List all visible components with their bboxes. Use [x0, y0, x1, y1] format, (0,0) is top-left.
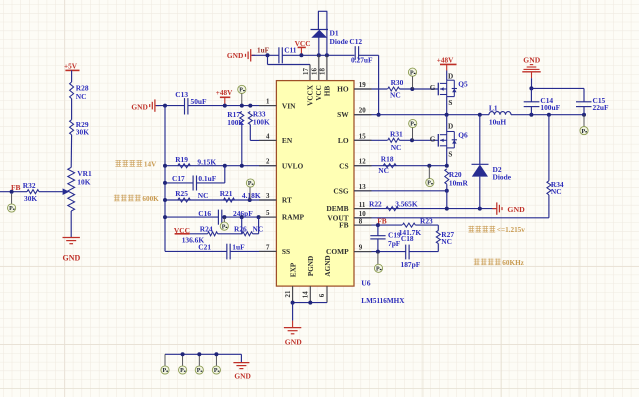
svg-text:NC: NC	[76, 92, 87, 101]
svg-text:C13: C13	[175, 90, 188, 99]
svg-text:3.565K: 3.565K	[395, 199, 418, 208]
svg-text:UVLO: UVLO	[282, 161, 304, 170]
svg-text:C16: C16	[198, 209, 211, 218]
svg-text:10mR: 10mR	[449, 178, 469, 187]
svg-text:6: 6	[319, 293, 326, 297]
svg-text:R18: R18	[381, 155, 394, 164]
svg-text:600K: 600K	[142, 195, 159, 203]
svg-text:R25: R25	[175, 189, 188, 198]
svg-text:50uF: 50uF	[191, 97, 208, 106]
svg-text:GND: GND	[227, 51, 243, 60]
svg-text:C21: C21	[198, 242, 211, 251]
svg-text:S: S	[448, 150, 452, 158]
svg-text:FB: FB	[11, 183, 21, 192]
svg-text:C12: C12	[349, 37, 362, 46]
svg-text:D: D	[448, 72, 453, 80]
svg-text:P: P	[197, 368, 201, 374]
svg-text:9: 9	[359, 245, 363, 252]
svg-text:10: 10	[359, 211, 366, 218]
svg-text:R21: R21	[220, 189, 233, 198]
svg-text:17: 17	[303, 68, 310, 75]
svg-text:P: P	[248, 181, 252, 187]
svg-text:RT: RT	[282, 196, 292, 205]
svg-text:U6: U6	[361, 278, 370, 287]
svg-text:NC: NC	[390, 91, 401, 100]
svg-text:P: P	[162, 368, 166, 374]
svg-text:1: 1	[266, 99, 270, 106]
svg-text:PGND: PGND	[307, 256, 315, 276]
svg-text:P: P	[239, 88, 243, 94]
svg-text:13: 13	[359, 184, 366, 191]
svg-text:GND: GND	[285, 337, 302, 346]
svg-text:4: 4	[266, 133, 270, 140]
svg-text:EN: EN	[282, 136, 293, 145]
svg-text:NC: NC	[198, 191, 209, 200]
svg-text:S: S	[448, 99, 452, 107]
svg-text:21: 21	[285, 290, 292, 297]
svg-text:EXP: EXP	[290, 262, 298, 277]
svg-text:0.27uF: 0.27uF	[351, 56, 373, 65]
svg-text:11: 11	[359, 202, 366, 209]
svg-text:P: P	[410, 70, 414, 76]
svg-text:R22: R22	[369, 199, 382, 208]
svg-text:Q6: Q6	[458, 131, 468, 140]
svg-text:FB: FB	[339, 221, 349, 230]
svg-text:<=1.215v: <=1.215v	[497, 226, 525, 234]
svg-text:P: P	[410, 122, 414, 128]
svg-text:R23: R23	[420, 216, 433, 225]
svg-text:20: 20	[359, 108, 366, 115]
svg-text:CSG: CSG	[333, 186, 348, 195]
svg-text:C18: C18	[401, 234, 414, 243]
svg-text:30K: 30K	[76, 128, 89, 137]
svg-text:D: D	[448, 123, 453, 131]
svg-text:4.18K: 4.18K	[242, 191, 261, 200]
svg-text:18: 18	[320, 68, 327, 75]
svg-text:R26: R26	[234, 225, 247, 234]
svg-text:GND: GND	[507, 205, 525, 214]
svg-text:VIN: VIN	[282, 101, 296, 110]
svg-text:SW: SW	[337, 110, 349, 119]
svg-text:GND: GND	[63, 254, 81, 263]
svg-text:9.15K: 9.15K	[197, 157, 216, 166]
svg-text:LM5116MHX: LM5116MHX	[361, 297, 405, 305]
svg-text:3: 3	[266, 193, 270, 200]
svg-text:P: P	[581, 129, 585, 135]
svg-text:HO: HO	[337, 85, 349, 94]
svg-text:10K: 10K	[77, 178, 90, 187]
svg-text:+48V: +48V	[437, 57, 454, 65]
svg-text:NC: NC	[441, 237, 452, 246]
svg-text:16: 16	[311, 68, 318, 75]
svg-text:COMP: COMP	[326, 247, 349, 256]
svg-text:7: 7	[266, 244, 270, 251]
svg-text:R32: R32	[23, 181, 36, 190]
svg-text:L1: L1	[489, 104, 498, 113]
svg-text:VCCX: VCCX	[307, 84, 315, 106]
svg-text:NC: NC	[253, 225, 264, 234]
svg-text:15: 15	[359, 133, 366, 140]
svg-text:2: 2	[266, 159, 270, 166]
svg-text:100uF: 100uF	[540, 103, 560, 112]
svg-text:R19: R19	[175, 155, 188, 164]
svg-text:G: G	[430, 84, 436, 92]
svg-text:19: 19	[359, 82, 366, 89]
svg-text:LO: LO	[338, 136, 349, 145]
svg-text:14: 14	[302, 291, 309, 298]
svg-text:P: P	[214, 368, 218, 374]
svg-text:Diode: Diode	[330, 37, 349, 46]
svg-text:0.1uF: 0.1uF	[198, 174, 216, 183]
svg-text:14V: 14V	[144, 160, 157, 168]
svg-text:P: P	[9, 206, 13, 212]
svg-text:+48V: +48V	[216, 89, 233, 97]
svg-text:VCC: VCC	[315, 85, 323, 101]
svg-text:GND: GND	[234, 371, 250, 380]
svg-text:1uF: 1uF	[232, 242, 245, 251]
svg-text:100K: 100K	[253, 117, 270, 126]
svg-text:5: 5	[266, 210, 270, 217]
svg-text:P: P	[180, 368, 184, 374]
svg-text:30K: 30K	[24, 194, 37, 203]
svg-text:187pF: 187pF	[401, 260, 421, 269]
svg-text:NC: NC	[391, 143, 402, 152]
svg-text:12: 12	[359, 159, 366, 166]
svg-text:NC: NC	[551, 187, 562, 196]
svg-text:R30: R30	[391, 78, 404, 87]
svg-text:+5V: +5V	[64, 63, 78, 71]
svg-text:RAMP: RAMP	[282, 213, 305, 222]
svg-text:SS: SS	[282, 247, 290, 256]
svg-text:8: 8	[359, 218, 363, 225]
svg-text:22uF: 22uF	[593, 103, 610, 112]
svg-text:P: P	[427, 181, 431, 187]
svg-text:DEMB: DEMB	[326, 204, 348, 213]
svg-text:P: P	[222, 224, 226, 230]
svg-text:60KHz: 60KHz	[502, 259, 524, 267]
svg-text:VCC: VCC	[295, 39, 311, 48]
svg-text:R24: R24	[200, 225, 213, 234]
svg-text:Diode: Diode	[493, 173, 512, 182]
svg-text:NC: NC	[378, 166, 389, 175]
svg-text:C17: C17	[172, 174, 185, 183]
svg-text:10uH: 10uH	[489, 118, 507, 127]
svg-text:GND: GND	[131, 103, 147, 112]
svg-text:P: P	[376, 267, 380, 273]
svg-text:CS: CS	[339, 161, 348, 170]
svg-text:AGND: AGND	[324, 255, 332, 276]
svg-text:Q5: Q5	[458, 79, 468, 88]
svg-text:GND: GND	[523, 55, 540, 64]
svg-text:HB: HB	[323, 86, 331, 97]
svg-text:7pF: 7pF	[388, 239, 401, 248]
svg-text:R31: R31	[390, 130, 403, 139]
svg-text:G: G	[430, 135, 436, 143]
